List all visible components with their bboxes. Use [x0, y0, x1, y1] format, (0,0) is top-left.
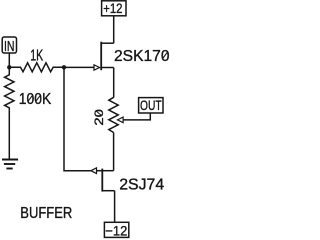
wire Q1 source to pot top [113, 68, 115, 98]
label Q1 2SK170 [114, 48, 170, 65]
ground symbol [2, 160, 18, 169]
pot wiper arrow [118, 117, 124, 123]
svg-text:2SJ74: 2SJ74 [119, 177, 164, 194]
potentiometer VR1 20-ohm body [109, 97, 118, 132]
svg-text:BUFFER: BUFFER [20, 205, 72, 222]
transistor Q1 2SK170 (N-channel JFET): bar, drain stub, source stub, gate arrow [94, 42, 114, 70]
node B junction dot (R1 / Q1 gate / Q2 gate) [62, 65, 66, 69]
port IN (input terminal box) [2, 37, 16, 55]
power -12 box [104, 222, 128, 238]
svg-text:IN: IN [4, 38, 15, 55]
svg-text:−12: −12 [105, 222, 127, 238]
label R2 value 100K [19, 91, 52, 108]
wire Q2 drain to -12 [114, 191, 116, 223]
svg-text:2SK170: 2SK170 [114, 48, 170, 65]
wire +12 to Q1 drain [113, 16, 115, 43]
wire R2 to ground [8, 110, 10, 159]
port OUT (output terminal box) [139, 97, 163, 113]
power +12 box [102, 0, 126, 16]
svg-text:+12: +12 [103, 0, 122, 16]
wire node B down and right to Q2 gate [64, 67, 91, 170]
transistor Q2 2SJ74 (P-channel JFET): bar, source stub, gate stub, gate arrow, drain stub [91, 168, 115, 192]
resistor R2 100K body [5, 67, 14, 110]
wire pot bottom to Q2 source [113, 133, 115, 171]
node A junction dot (IN / R1 / R2) [7, 65, 11, 69]
wire IN to node A [8, 53, 10, 67]
resistor R1 1K body [9, 63, 64, 72]
svg-text:1K: 1K [30, 48, 43, 65]
svg-text:20: 20 [94, 109, 106, 126]
svg-text:OUT: OUT [140, 97, 162, 113]
svg-text:100K: 100K [19, 91, 52, 108]
wire node B to Q1 gate [64, 66, 94, 68]
label VR1 value 20 (rotated) [94, 109, 106, 126]
wire wiper to OUT [123, 113, 150, 120]
